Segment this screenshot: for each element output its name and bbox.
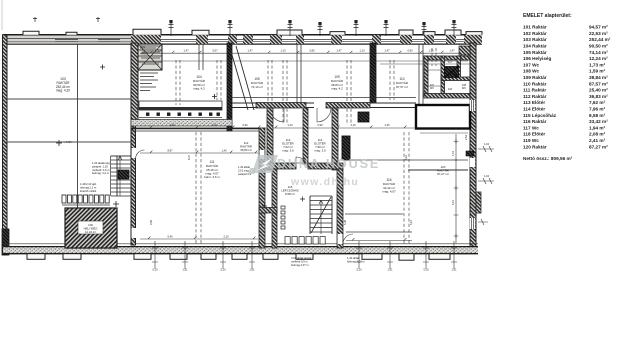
svg-text:1,51: 1,51: [451, 150, 455, 156]
svg-text:114 Előtér: 114 Előtér: [523, 107, 545, 112]
svg-text:belmag 4,07 m: belmag 4,07 m: [347, 260, 366, 264]
svg-text:5,46: 5,46: [260, 219, 264, 225]
svg-text:74,14 m²: 74,14 m²: [251, 85, 263, 89]
svg-text:120 Raktár: 120 Raktár: [523, 144, 547, 149]
bottom small note text: [291, 256, 312, 267]
svg-text:www.dh.hu: www.dh.hu: [290, 176, 359, 188]
WC cluster top right: [380, 56, 470, 98]
svg-text:106 Helyiség: 106 Helyiség: [523, 56, 552, 61]
svg-text:110 Raktár: 110 Raktár: [523, 81, 547, 86]
right wall pilaster: [476, 192, 481, 213]
legend rows: [523, 25, 611, 150]
wall between 112 and 113: [267, 108, 273, 170]
bottom extra note: [347, 256, 366, 264]
hatched pier right of 114: [342, 136, 350, 160]
svg-text:3,00 ablak alsóél: 3,00 ablak alsóél: [291, 256, 312, 260]
room 111 right wall: [259, 128, 265, 248]
svg-text:1,40 ablak: 1,40 ablak: [347, 256, 360, 260]
small cross mark near hatch: [113, 201, 119, 207]
secondary chain line: [137, 60, 468, 62]
svg-text:5,10: 5,10: [451, 199, 455, 205]
left block cross mark: [56, 65, 105, 147]
wc cluster corner block: [459, 46, 470, 55]
svg-text:115 Lépcsőház: 115 Lépcsőház: [523, 113, 557, 118]
svg-text:87,57 m²: 87,57 m²: [589, 81, 608, 86]
bottom dimension crosses: [152, 241, 457, 269]
svg-text:5,10: 5,10: [220, 268, 226, 272]
svg-text:3,96: 3,96: [149, 219, 153, 225]
svg-text:mag: 4,2: mag: 4,2: [331, 87, 343, 91]
left wall lower dark corner: [2, 229, 9, 255]
svg-text:87,27 m²: 87,27 m²: [437, 172, 448, 176]
left block spec text: [92, 161, 111, 175]
svg-text:102 Raktár: 102 Raktár: [523, 31, 547, 36]
stair flight: [310, 196, 332, 234]
svg-text:1,20 ablakmag.: 1,20 ablakmag.: [92, 161, 111, 165]
svg-text:0,90: 0,90: [407, 49, 413, 53]
left exterior wall: [3, 35, 8, 255]
svg-text:WC: WC: [430, 87, 434, 90]
svg-text:108 Wc: 108 Wc: [523, 69, 540, 74]
svg-text:112 Raktár: 112 Raktár: [523, 94, 547, 99]
svg-text:1,51: 1,51: [451, 268, 457, 272]
svg-text:117 Wc: 117 Wc: [523, 125, 539, 130]
top wall pilaster bumps outlined: [23, 29, 482, 35]
svg-text:8,87: 8,87: [167, 148, 173, 152]
svg-text:1,10: 1,10: [359, 49, 365, 53]
stairwell left wall: [272, 169, 277, 248]
svg-text:12,24 m²: 12,24 m²: [85, 230, 96, 234]
svg-text:mag: 3,0: mag: 3,0: [314, 149, 326, 153]
svg-text:117: 117: [448, 61, 453, 64]
room 114 label: [314, 138, 326, 153]
small chimney marks above left block: [33, 17, 100, 22]
svg-text:DUNA HOUSE: DUNA HOUSE: [277, 157, 380, 171]
partition wall x419: [419, 44, 423, 104]
stairwell label: [281, 185, 299, 196]
top wall window lines: [55, 39, 464, 41]
svg-text:Nettó össz.: 809,56 m²: Nettó össz.: 809,56 m²: [523, 156, 573, 161]
legend: [523, 13, 611, 161]
right side dimension ticks: [478, 146, 494, 225]
svg-text:36,83 m²: 36,83 m²: [589, 94, 608, 99]
svg-text:0,90: 0,90: [242, 123, 248, 127]
cross wall left of stairwell: [259, 208, 277, 214]
room 116/120 dashed divider: [404, 132, 409, 244]
svg-text:1,73 m²: 1,73 m²: [589, 62, 606, 67]
dark patch on stair landing: [118, 170, 129, 179]
bottom exterior wall: [3, 244, 478, 254]
svg-text:4,10: 4,10: [404, 154, 408, 160]
wall right of 114: [332, 108, 338, 170]
left block interior line y101: [7, 98, 131, 100]
room 111 label: [204, 160, 220, 179]
dimension line y153 room 111: [140, 151, 258, 153]
svg-text:2,10: 2,10: [223, 234, 229, 238]
svg-text:104 Raktár: 104 Raktár: [523, 44, 547, 49]
svg-text:1,04: 1,04: [484, 174, 490, 178]
svg-text:22,53 m²: 22,53 m²: [589, 31, 608, 36]
svg-text:0,90: 0,90: [317, 123, 323, 127]
room 116 bottom inner line: [346, 231, 412, 233]
svg-text:107 Wc: 107 Wc: [523, 62, 540, 67]
svg-text:1,10: 1,10: [287, 123, 293, 127]
svg-text:WC: WC: [462, 87, 466, 90]
left stair rail: [111, 156, 132, 196]
svg-text:36,83 m²: 36,83 m²: [240, 148, 251, 152]
room 116 label: [382, 178, 396, 194]
dark wall line y128: [131, 127, 260, 129]
svg-text:mag: 4,2: mag: 4,2: [193, 87, 205, 91]
top wall piers (hatched): [131, 35, 482, 44]
watermark duna house: [248, 155, 380, 188]
svg-text:1,59 m²: 1,59 m²: [589, 69, 606, 74]
watermark logo house glyph: [257, 158, 272, 171]
svg-text:5,46: 5,46: [167, 234, 173, 238]
room 113 label: [282, 138, 294, 153]
room 112 label: [240, 141, 252, 152]
axis markers above top wall: [169, 22, 457, 36]
pier wall below room 104: [131, 94, 232, 126]
svg-text:1,47: 1,47: [336, 49, 342, 53]
entry step bottom: [399, 254, 414, 261]
watermark logo parallelogram: [248, 155, 278, 174]
svg-text:101 Raktár: 101 Raktár: [523, 25, 547, 30]
partition stub x200: [199, 44, 203, 70]
svg-text:mellvéd 0,9 m: mellvéd 0,9 m: [291, 260, 308, 264]
top exterior wall: [3, 29, 482, 44]
svg-text:87,57 m²: 87,57 m²: [396, 85, 408, 89]
svg-text:tokmag 2,1 m: tokmag 2,1 m: [80, 185, 97, 189]
svg-text:2,10 mag: 2,10 mag: [238, 168, 249, 172]
rotated dim numbers: [149, 134, 468, 225]
svg-text:mellvéd: 0,9 m: mellvéd: 0,9 m: [92, 168, 110, 172]
svg-text:8,58 m²: 8,58 m²: [285, 192, 295, 196]
svg-text:119 Wc: 119 Wc: [523, 138, 539, 143]
top band room labels: [193, 75, 409, 91]
svg-text:1,51: 1,51: [387, 268, 393, 272]
svg-text:5,80: 5,80: [309, 49, 315, 53]
svg-text:mag: 3,0: mag: 3,0: [282, 149, 294, 153]
svg-text:mag: 4,20: mag: 4,20: [56, 89, 70, 93]
svg-text:118: 118: [448, 88, 453, 91]
svg-text:118 Előtér: 118 Előtér: [523, 132, 545, 137]
right wall window gaps: [470, 100, 475, 229]
svg-text:5,10: 5,10: [423, 268, 429, 272]
small dark door blob: [358, 112, 369, 122]
svg-text:4,40: 4,40: [169, 123, 175, 127]
svg-text:5,10: 5,10: [409, 219, 413, 225]
door arcs into 113/114: [270, 108, 284, 122]
svg-text:1,47: 1,47: [384, 49, 390, 53]
svg-text:103 Raktár: 103 Raktár: [523, 37, 547, 42]
left block small staircase: [111, 156, 131, 196]
marks below stair block: [140, 73, 158, 91]
room 116 interior line: [345, 213, 403, 215]
wall row y103 with doors (rooms 113/114 top): [232, 103, 416, 123]
svg-text:1,40/2,10 ajtó: 1,40/2,10 ajtó: [80, 182, 97, 186]
svg-text:5,07: 5,07: [212, 49, 218, 53]
svg-text:EMELET alapterület:: EMELET alapterület:: [523, 13, 572, 19]
svg-text:12,24 m²: 12,24 m²: [589, 56, 608, 61]
svg-text:belm: 3,6 m: belm: 3,6 m: [204, 175, 220, 179]
right wall door jamb: [466, 151, 474, 156]
svg-text:74,14 m²: 74,14 m²: [589, 50, 608, 55]
left top corner tiny line: [1, 0, 3, 30]
svg-text:90,50 m²: 90,50 m²: [589, 44, 608, 49]
corridor line y97: [232, 97, 416, 99]
svg-text:1,40 ablak: 1,40 ablak: [238, 165, 251, 169]
svg-text:111 Raktár: 111 Raktár: [523, 88, 546, 93]
svg-text:105 Raktár: 105 Raktár: [523, 50, 547, 55]
svg-text:1,10: 1,10: [280, 49, 286, 53]
svg-text:1,47: 1,47: [183, 49, 189, 53]
stairwell right wall: [337, 169, 343, 248]
partition wall x297: [297, 44, 301, 108]
svg-text:belmag 4,07 m: belmag 4,07 m: [291, 263, 310, 267]
svg-text:1,47: 1,47: [247, 49, 253, 53]
svg-text:1,04: 1,04: [484, 142, 490, 146]
svg-text:1,51: 1,51: [249, 268, 255, 272]
left block interior partition line vertical: [77, 44, 79, 208]
svg-text:8,58 m²: 8,58 m²: [589, 113, 606, 118]
svg-text:1,10: 1,10: [211, 123, 217, 127]
dark rect room (top of 120): [416, 105, 470, 129]
room 120 label: [437, 165, 449, 176]
svg-text:101: 101: [141, 46, 146, 49]
svg-text:6,37: 6,37: [187, 154, 191, 160]
wall between 113 and 114: [303, 108, 308, 164]
long dimension chain y128: [131, 126, 416, 128]
svg-text:mag: 4,07: mag: 4,07: [382, 190, 396, 194]
bottom wall window sills: [27, 254, 450, 260]
bottom interior chains: [140, 237, 412, 241]
right exterior wall: [470, 43, 476, 250]
inner dimension chain along right wall: [454, 134, 459, 243]
svg-text:5,10: 5,10: [356, 268, 362, 272]
radiator marks in stair hall: [281, 206, 325, 244]
partition wall x370: [370, 43, 376, 103]
svg-text:2,08 m²: 2,08 m²: [589, 132, 606, 137]
cross marks stair hall: [262, 197, 305, 209]
svg-text:25,40 m²: 25,40 m²: [589, 88, 608, 93]
svg-text:küszöb nélkül: küszöb nélkül: [80, 189, 97, 193]
svg-text:1,25: 1,25: [384, 123, 390, 127]
left block: inner right wall: [131, 43, 136, 245]
svg-text:2,41 m²: 2,41 m²: [589, 138, 606, 143]
spec text right side of room 111: [238, 165, 252, 176]
svg-text:1,47: 1,47: [449, 49, 455, 53]
room 111 dashed beam pair: [196, 132, 201, 244]
svg-text:1,51: 1,51: [182, 268, 188, 272]
svg-text:1,25: 1,25: [428, 49, 434, 53]
svg-text:116 Raktár: 116 Raktár: [523, 119, 547, 124]
left block interior line y152: [7, 141, 131, 143]
svg-text:94,57 m²: 94,57 m²: [589, 25, 608, 30]
svg-text:252,44 m²: 252,44 m²: [589, 37, 611, 42]
wall below 113/114 = stairwell top wall: [266, 157, 343, 169]
right wall door notch: [470, 158, 475, 167]
curved flue wall: [230, 46, 254, 110]
dark shaft block: [445, 67, 459, 78]
left block shelf row: [62, 195, 109, 203]
svg-text:5,10: 5,10: [152, 268, 158, 272]
svg-text:2,62: 2,62: [464, 134, 468, 140]
svg-text:7,96 m²: 7,96 m²: [589, 107, 606, 112]
svg-text:1,40: 1,40: [221, 148, 227, 152]
svg-text:7,62 m²: 7,62 m²: [589, 100, 606, 105]
svg-text:parapet: 1,20: parapet: 1,20: [92, 164, 108, 168]
dashed beam lines top band: [176, 48, 436, 125]
room 103 label (left block): [56, 77, 70, 93]
svg-text:87,27 m²: 87,27 m²: [589, 144, 608, 149]
dimension chain across top rooms: [140, 51, 468, 53]
svg-text:38,84 m²: 38,84 m²: [589, 75, 608, 80]
svg-text:33,42 m²: 33,42 m²: [589, 119, 608, 124]
svg-text:belmag: 4,2 m: belmag: 4,2 m: [92, 171, 110, 175]
svg-text:109 Raktár: 109 Raktár: [523, 75, 547, 80]
partition wall x227 with curve: [227, 43, 254, 131]
svg-text:113 Előtér: 113 Előtér: [523, 100, 545, 105]
hatched stair block top (room 101): [138, 44, 162, 70]
room 116 top line: [346, 159, 468, 161]
svg-text:5,46: 5,46: [343, 219, 347, 225]
svg-text:1,94 m²: 1,94 m²: [589, 125, 606, 130]
svg-text:+4,34: +4,34: [64, 140, 72, 144]
hatched storage room bottom-left: [65, 208, 117, 248]
svg-text:1,10: 1,10: [350, 123, 356, 127]
svg-text:1,10: 1,10: [157, 49, 163, 53]
